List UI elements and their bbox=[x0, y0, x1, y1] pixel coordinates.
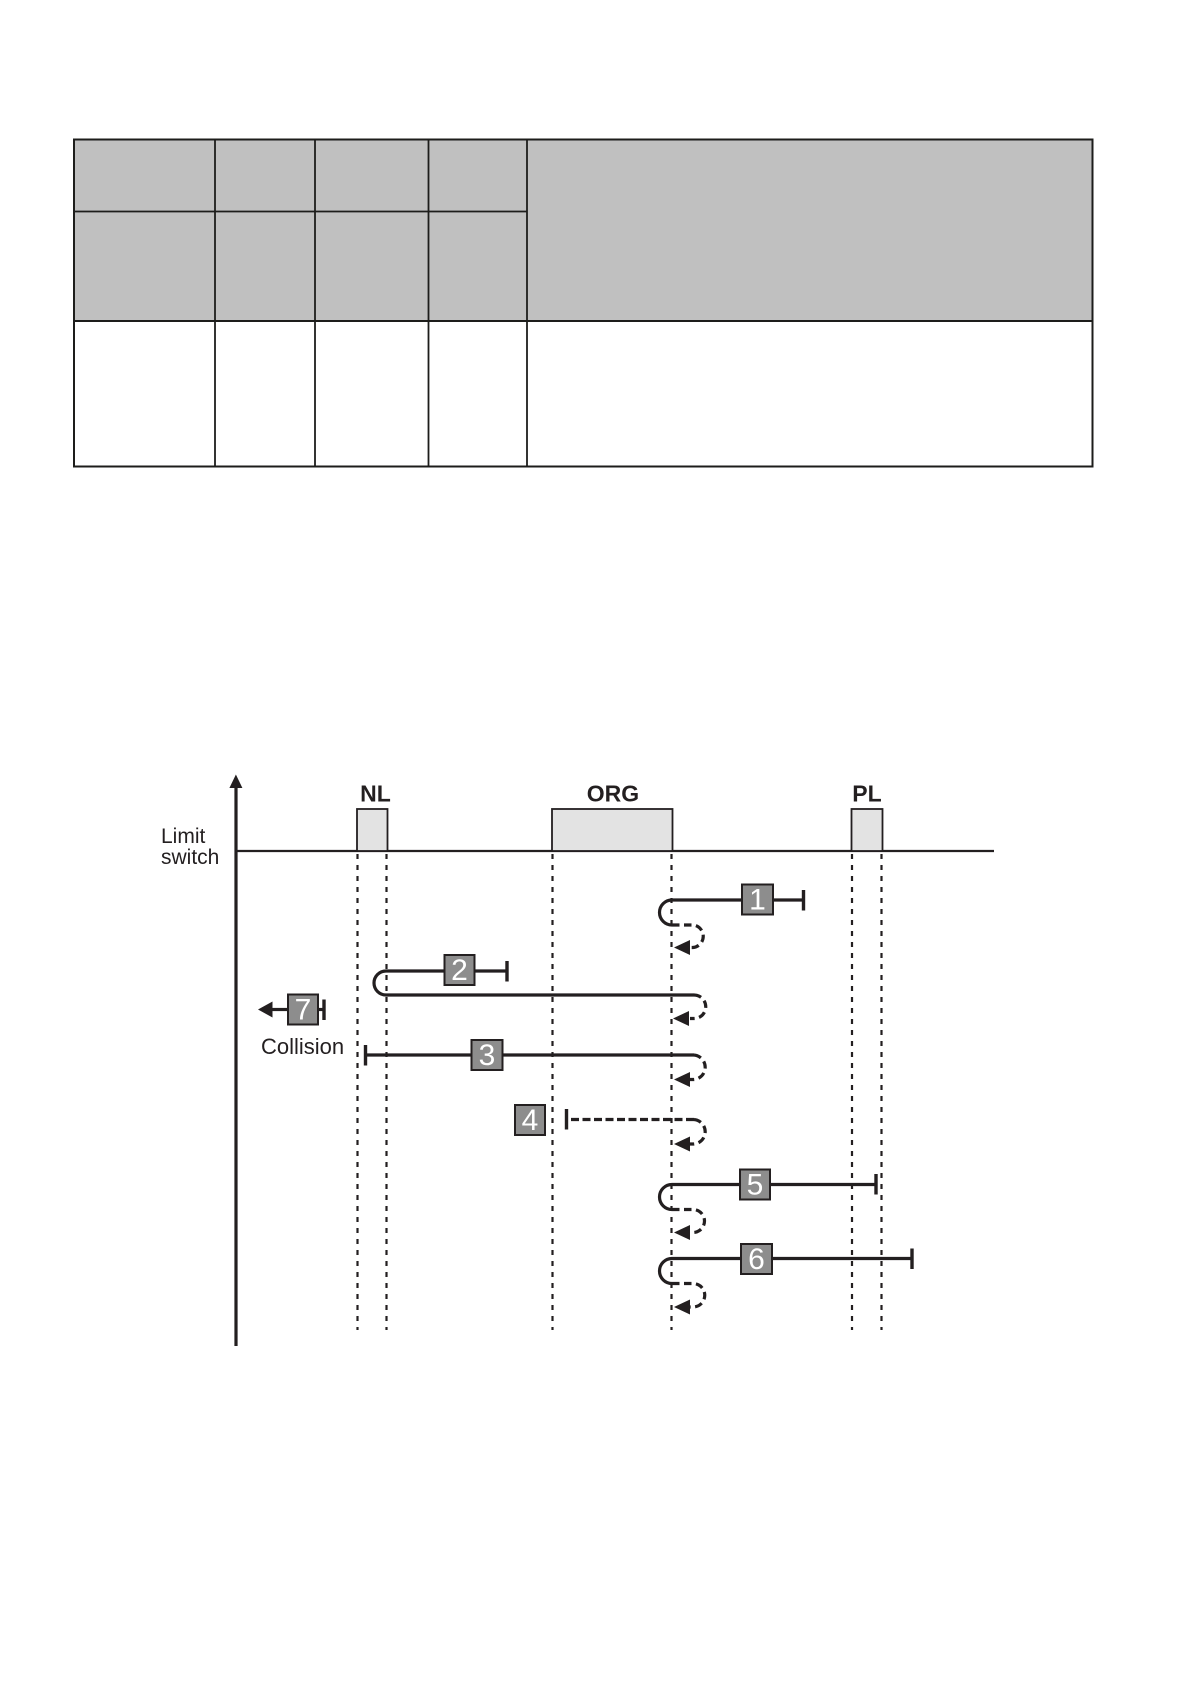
svg-text:5: 5 bbox=[747, 1169, 764, 1202]
table header split line (left section only) bbox=[73, 211, 527, 213]
svg-text:2: 2 bbox=[451, 954, 468, 987]
svg-text:3: 3 bbox=[479, 1039, 496, 1072]
homing path 7 collision bbox=[258, 994, 324, 1027]
table outer border bbox=[74, 140, 1093, 467]
svg-text:7: 7 bbox=[295, 994, 312, 1027]
homing path 2 bbox=[374, 961, 706, 1026]
svg-text:Collision: Collision bbox=[261, 1034, 344, 1059]
dashed guide ORG left edge bbox=[551, 854, 553, 1330]
table header gray fill bbox=[74, 140, 1092, 322]
svg-text:ORG: ORG bbox=[587, 781, 639, 807]
table column line 3 bbox=[428, 139, 430, 467]
svg-text:NL: NL bbox=[360, 781, 391, 807]
homing path 3 bbox=[366, 1045, 706, 1087]
svg-text:6: 6 bbox=[748, 1243, 765, 1276]
label Limit switch bbox=[161, 825, 219, 869]
dashed guide PL right edge bbox=[880, 854, 882, 1330]
limit switch baseline bbox=[236, 850, 994, 852]
method 1 marker bbox=[742, 884, 773, 917]
svg-text:switch: switch bbox=[161, 846, 219, 869]
table column line 4 bbox=[526, 139, 528, 467]
ORG sensor box bbox=[552, 809, 673, 851]
svg-text:4: 4 bbox=[522, 1104, 539, 1137]
homing path 6 bbox=[660, 1249, 913, 1315]
y axis with arrowhead bbox=[229, 775, 242, 1347]
method 6 marker bbox=[741, 1243, 772, 1276]
homing path 1 bbox=[660, 890, 804, 955]
method 5 marker bbox=[740, 1169, 770, 1202]
dashed guide ORG right edge bbox=[670, 854, 672, 1330]
homing path 4 bbox=[567, 1109, 706, 1152]
method 4 marker bbox=[515, 1104, 545, 1137]
method 3 marker bbox=[472, 1039, 503, 1072]
dashed guide NL right edge bbox=[385, 854, 387, 1330]
dashed guide NL left edge bbox=[356, 854, 358, 1330]
PL sensor box bbox=[852, 809, 883, 851]
table column line 1 bbox=[214, 139, 216, 467]
table header bottom line bbox=[73, 320, 1093, 322]
table column line 2 bbox=[314, 139, 316, 467]
dashed guide PL left edge bbox=[851, 854, 853, 1330]
NL sensor box bbox=[357, 809, 388, 851]
homing path 5 bbox=[660, 1174, 877, 1240]
svg-text:1: 1 bbox=[749, 884, 766, 917]
svg-text:PL: PL bbox=[852, 781, 881, 807]
method 2 marker bbox=[445, 954, 475, 987]
svg-text:Limit: Limit bbox=[161, 825, 206, 848]
